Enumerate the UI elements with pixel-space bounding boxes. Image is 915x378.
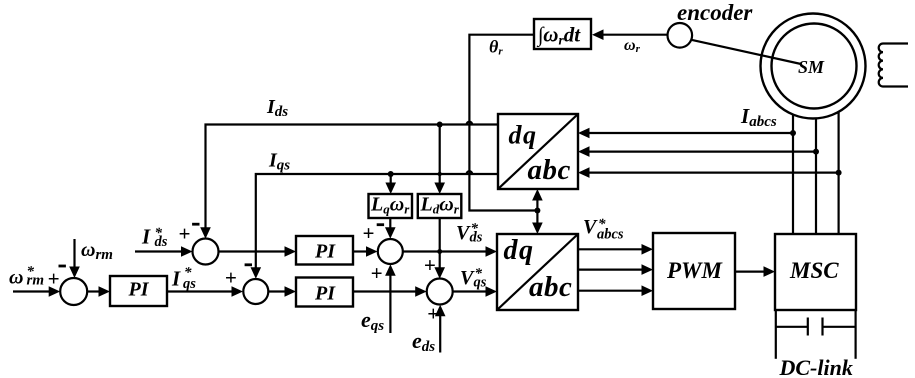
svg-text:ds: ds <box>155 234 168 250</box>
arrowhead into Lq box <box>385 183 396 195</box>
wire Ib to dq block <box>589 151 816 153</box>
arrowhead into PI2 <box>285 246 297 257</box>
sign minus S3 top <box>377 223 384 226</box>
wire Lq box to sum S3 <box>389 218 391 235</box>
node I_ds to Ld tap <box>437 122 443 128</box>
svg-text:+: + <box>178 222 190 246</box>
block abc-to-dq current transform <box>498 114 578 189</box>
block dq-to-abc voltage transform <box>497 234 578 310</box>
sign minus S5 <box>245 263 252 266</box>
wire MSC right leg down <box>854 310 856 359</box>
arrowhead I_qs into sum S5 <box>251 267 262 279</box>
arrowhead V*_qs into dq block <box>486 286 498 297</box>
arrowhead Ic into dq block <box>578 167 590 178</box>
svg-text:+: + <box>371 261 383 285</box>
arrowhead into integrator <box>592 29 604 40</box>
crossing hop theta over I_qs <box>467 171 473 174</box>
svg-text:Lqωr: Lqωr <box>370 194 410 217</box>
diagonal of upper dq block <box>498 114 578 189</box>
wire I*_ds input <box>135 250 182 252</box>
svg-text:dq: dq <box>509 121 538 150</box>
summing junction S3 d-axis voltage <box>378 239 403 264</box>
wire dq to PWM b <box>578 269 642 271</box>
wire phase c vertical <box>837 112 839 234</box>
wire PI1 to sum S5 <box>167 290 232 292</box>
capacitor DC-link right lead <box>823 326 856 328</box>
arrowhead w_rm into sum S1 <box>69 267 80 279</box>
wire encoder shaft to SM <box>691 40 801 64</box>
block PI3 q-axis controller <box>296 278 353 307</box>
block PI2 d-axis controller <box>296 236 353 265</box>
wire V*_qs to lower dq block <box>453 290 486 292</box>
crossing hop theta over I_ds <box>467 122 473 125</box>
svg-text:+: + <box>424 253 436 277</box>
summing junction S4 q-axis voltage <box>427 279 453 305</box>
wire theta vertical between dq blocks <box>536 192 538 231</box>
arrowhead w*_rm into sum S1 <box>49 286 61 297</box>
svg-text:PI: PI <box>314 241 336 263</box>
wire PWM to MSC <box>735 271 764 273</box>
svg-text:DC-link: DC-link <box>779 355 853 378</box>
node I_qs to Lq tap <box>388 171 394 177</box>
arrowhead Ia into dq block <box>578 128 590 139</box>
wire phase b vertical <box>815 119 817 235</box>
wire Ia to dq block <box>589 132 793 134</box>
block PWM <box>653 233 735 309</box>
arrowhead into sum S4 <box>415 286 427 297</box>
arrowhead into PWM b <box>642 264 654 275</box>
wire I_qs feedback <box>256 174 498 275</box>
svg-text:qs: qs <box>183 276 196 292</box>
summing junction S1 <box>60 278 87 305</box>
node phase a tap <box>790 130 796 136</box>
svg-text:abc: abc <box>528 154 571 186</box>
capacitor plate left <box>807 318 809 336</box>
arrowhead into PI3 <box>285 286 297 297</box>
arrowhead theta into upper dq block <box>532 189 543 201</box>
block integrator U1 <box>534 19 591 49</box>
node theta tee junction <box>534 208 540 214</box>
arrowhead into PI1 <box>99 286 111 297</box>
node crossing blob Ld wire over Iqs wire <box>438 172 442 176</box>
block Lq*wr <box>369 194 413 218</box>
svg-text:abc: abc <box>529 271 572 303</box>
svg-text:I: I <box>141 225 151 249</box>
wire S5 to PI3 <box>269 290 285 292</box>
node phase c tap <box>836 170 842 176</box>
svg-text:abcs: abcs <box>597 227 624 243</box>
block MSC <box>775 234 856 310</box>
svg-text:SM: SM <box>798 57 825 77</box>
arrowhead V*_ds into dq block <box>486 246 498 257</box>
arrowhead into PWM a <box>642 244 654 255</box>
node phase b tap <box>813 149 819 155</box>
arrowhead into sum S5 <box>232 286 244 297</box>
block Ld*wr <box>418 194 462 218</box>
wire V*_ds to lower dq block <box>403 250 486 252</box>
svg-text:I: I <box>171 267 181 291</box>
capacitor DC-link left lead <box>776 326 808 328</box>
sign minus S2 <box>192 223 199 226</box>
encoder circle <box>668 23 693 48</box>
wire Ld box down to sum S4 <box>439 218 441 275</box>
svg-text:V: V <box>583 216 598 238</box>
arrowhead into sum S3 <box>366 246 378 257</box>
arrowhead I_ds into sum S2 <box>200 227 211 239</box>
block PI1 speed controller <box>110 276 167 306</box>
arrowhead e_ds into sum S4 <box>435 305 446 317</box>
svg-text:qs: qs <box>474 275 487 291</box>
arrowhead into PWM c <box>642 285 654 296</box>
summing junction S2 d-axis current <box>193 239 219 265</box>
motor SM outer circle <box>761 14 866 119</box>
arrowhead Lq into sum S3 <box>385 227 396 239</box>
wire PI2 to sum S3 <box>353 250 367 252</box>
wire MSC left leg down <box>775 310 777 359</box>
sign minus S1 <box>59 265 66 268</box>
field winding coil of SM <box>879 44 908 87</box>
wire I_ds feedback <box>206 125 499 236</box>
svg-text:MSC: MSC <box>789 258 839 283</box>
wire wr encoder to integrator <box>600 34 668 36</box>
summing junction S5 q-axis current <box>243 279 268 304</box>
wire S2 to PI2 <box>218 250 285 252</box>
svg-text:+: + <box>48 267 60 291</box>
svg-text:+: + <box>225 266 237 290</box>
arrowhead into MSC <box>764 266 776 277</box>
wire S1 to PI1 <box>87 290 99 292</box>
svg-text:PI: PI <box>314 283 336 305</box>
node Ld wire crossing Vds wire <box>437 249 442 254</box>
svg-text:Ldωr: Ldωr <box>420 194 460 217</box>
svg-text:rm: rm <box>27 273 45 289</box>
arrowhead e_qs into sum S3 <box>385 264 396 276</box>
wire phase a vertical <box>792 114 794 234</box>
svg-text:ω: ω <box>9 267 23 289</box>
wire w_rm from top <box>73 239 75 275</box>
svg-text:encoder: encoder <box>677 0 753 25</box>
svg-text:+: + <box>362 221 374 245</box>
diagonal of lower dq block <box>497 234 578 310</box>
arrowhead theta into lower dq block <box>532 223 543 235</box>
arrowhead I*_ds into sum S2 <box>181 246 193 257</box>
svg-text:dq: dq <box>504 235 535 266</box>
wire tap down into Lq box <box>390 174 392 191</box>
wire Ic to dq block <box>589 172 839 174</box>
arrowhead Ld into sum S4 <box>434 267 445 279</box>
wire dq to PWM a <box>578 248 642 250</box>
svg-text:PI: PI <box>128 279 150 301</box>
wire PI3 to sum S4 <box>353 290 416 292</box>
svg-text:PWM: PWM <box>666 258 724 283</box>
capacitor plate right <box>821 318 823 336</box>
arrowhead Ib into dq block <box>578 146 590 157</box>
wire e_qs input <box>389 268 391 333</box>
wire dq to PWM c <box>578 290 642 292</box>
wire tap down into Ld box <box>439 125 441 192</box>
wire e_ds input <box>439 308 441 353</box>
arrowhead into Ld box <box>434 183 445 195</box>
motor SM inner circle <box>772 24 857 109</box>
svg-text:ds: ds <box>470 230 483 246</box>
wire theta_r from integrator <box>469 35 537 211</box>
wire w*_rm input <box>13 290 52 292</box>
